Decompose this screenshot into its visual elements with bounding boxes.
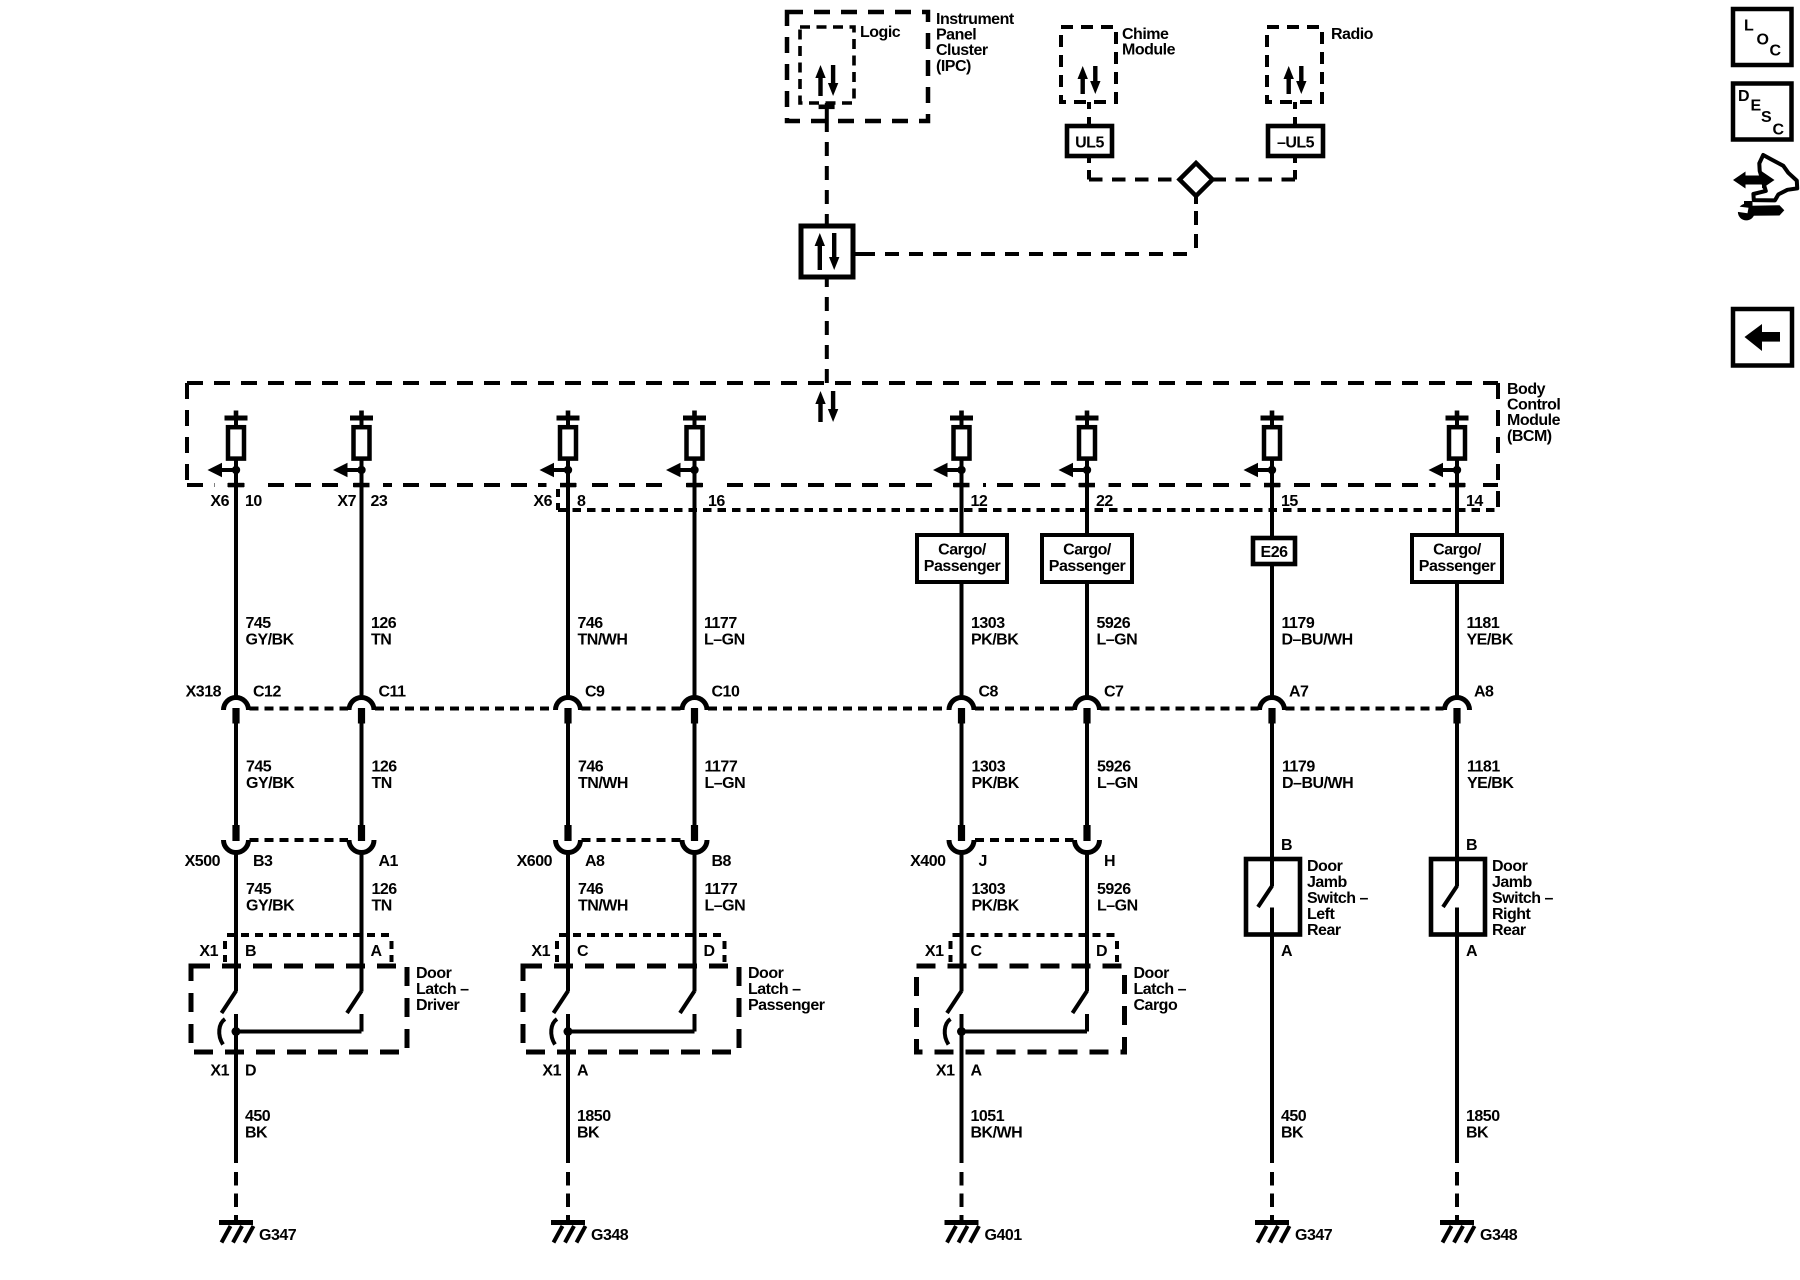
wire 1179 D-BU/WH X318 to door jamb switch [1270, 723, 1274, 887]
X600 in-line connector pin A8 [556, 825, 581, 852]
svg-text:Door: Door [1492, 858, 1528, 875]
circuit label 5926 upper [1097, 615, 1138, 648]
wire: data box bottom stub [825, 277, 829, 287]
svg-text:C9: C9 [585, 684, 605, 701]
svg-text:8: 8 [577, 493, 586, 510]
svg-text:B8: B8 [712, 853, 732, 870]
svg-text:G347: G347 [259, 1227, 297, 1244]
svg-text:Latch –: Latch – [748, 981, 801, 998]
Body Control Module (BCM) dashed box [187, 383, 1498, 510]
svg-text:1303: 1303 [972, 881, 1006, 898]
svg-text:G401: G401 [985, 1227, 1023, 1244]
svg-text:G348: G348 [1480, 1227, 1518, 1244]
Logic inner dashed box [800, 27, 854, 103]
wire: dashed drop to G348 [566, 1172, 570, 1221]
svg-text:GY/BK: GY/BK [246, 631, 295, 648]
svg-text:1179: 1179 [1282, 615, 1315, 632]
circuit label 746 lower [578, 881, 628, 914]
svg-text:X1: X1 [925, 943, 944, 960]
svg-text:X1: X1 [531, 943, 550, 960]
circuit label 1177 middle [705, 759, 746, 792]
wire 1303 PK/BK X318 to body connector [960, 723, 964, 825]
wires below X500 [236, 851, 362, 992]
X1 label at latch cargo [925, 943, 944, 960]
BCM pin 14 signal arrow (to logic) [1429, 463, 1462, 478]
wire: serial data horizontal dashed to data box [853, 252, 1196, 256]
X318 in-line connector pin A8 [1445, 698, 1470, 724]
circuit label 746 upper [578, 615, 628, 648]
BCM pin 12 signal arrow (to logic) [933, 463, 966, 478]
svg-text:Logic: Logic [860, 24, 901, 41]
IPC label text [936, 11, 1015, 75]
svg-text:X500: X500 [185, 853, 221, 870]
X1 label at latch passenger [531, 943, 550, 960]
svg-text:TN/WH: TN/WH [578, 897, 628, 914]
svg-text:126: 126 [372, 759, 398, 776]
Door Latch - Driver dashed box [191, 966, 407, 1052]
wire 126 TN from BCM pin 23 [360, 485, 364, 696]
circuit label 126 lower [372, 881, 398, 914]
svg-text:C8: C8 [979, 684, 999, 701]
pin label 16 [708, 493, 725, 510]
wires below X600 [568, 851, 695, 992]
svg-text:1850: 1850 [577, 1108, 611, 1125]
svg-text:A: A [971, 1063, 983, 1080]
door jamb switch pin A label (left rear) [1281, 943, 1293, 960]
X1 output label at latch passenger [542, 1063, 589, 1080]
svg-text:450: 450 [245, 1108, 271, 1125]
door latch cargo junction dot [957, 1027, 966, 1036]
X1 pin D label [704, 943, 715, 960]
wire 1177 L-GN X318 to body connector [693, 723, 697, 825]
svg-text:746: 746 [578, 615, 604, 632]
X318 in-line connector pin C8 [949, 698, 974, 724]
BCM pin 22 signal arrow (to logic) [1059, 463, 1092, 478]
door latch cargo left switch blade [947, 991, 962, 1013]
svg-text:GY/BK: GY/BK [246, 775, 295, 792]
svg-text:Right: Right [1492, 906, 1532, 923]
wire 1181 YE/BK from BCM pin 14 through option box [1455, 485, 1459, 696]
wire: -UL5 down and left to diamond (dashed) [1213, 156, 1295, 180]
svg-text:745: 745 [246, 881, 272, 898]
svg-text:Door: Door [1134, 965, 1170, 982]
pin label 14 [1466, 493, 1483, 510]
svg-text:A: A [371, 943, 383, 960]
svg-text:X1: X1 [542, 1063, 561, 1080]
svg-text:YE/BK: YE/BK [1467, 631, 1514, 648]
circuit label 1181 middle [1467, 759, 1514, 792]
Door Jamb Switch - Left Rear label [1307, 858, 1369, 939]
BCM driver output pin 10: pullup resistor [225, 411, 248, 486]
svg-text:C7: C7 [1104, 684, 1124, 701]
svg-text:B: B [245, 943, 256, 960]
Door Latch - Cargo dashed box [917, 966, 1125, 1052]
svg-text:Rear: Rear [1492, 922, 1526, 939]
door latch passenger switch travel hook [551, 1019, 557, 1045]
wire 746 TN/WH from BCM pin 8 [566, 485, 570, 696]
BCM box edge tick at pin 12 [940, 482, 983, 488]
BCM pin 8 signal arrow (to logic) [540, 463, 573, 478]
wire: dashed drop to G401 [960, 1172, 964, 1221]
door latch cargo common tie wire [962, 1014, 1088, 1032]
pin label 12 [971, 493, 988, 510]
wire: dashed IPC down to data box [825, 142, 829, 218]
X318 pin label C8 [979, 684, 999, 701]
svg-text:Cargo/: Cargo/ [1063, 542, 1112, 559]
svg-text:D–BU/WH: D–BU/WH [1282, 631, 1353, 648]
svg-text:Cargo/: Cargo/ [938, 542, 987, 559]
svg-text:X6: X6 [210, 493, 229, 510]
door latch driver left switch blade [222, 991, 237, 1013]
door latch driver junction dot [232, 1027, 241, 1036]
ground label G348 [591, 1227, 629, 1244]
svg-text:L–GN: L–GN [1097, 897, 1138, 914]
LOC navigation box [1733, 9, 1792, 65]
svg-text:746: 746 [578, 759, 604, 776]
svg-text:Chime: Chime [1122, 26, 1169, 43]
svg-text:1850: 1850 [1466, 1108, 1500, 1125]
door latch passenger right switch blade [680, 991, 695, 1013]
svg-text:1177: 1177 [705, 759, 738, 776]
X1 pin C label [971, 943, 983, 960]
svg-text:1051: 1051 [971, 1108, 1005, 1125]
svg-text:A1: A1 [379, 853, 399, 870]
Chime Module label [1122, 26, 1176, 59]
svg-text:L–GN: L–GN [705, 897, 746, 914]
ground label G348 [1480, 1227, 1518, 1244]
connector X500 label [185, 853, 221, 870]
svg-text:12: 12 [971, 493, 988, 510]
svg-text:1177: 1177 [704, 615, 737, 632]
svg-text:A7: A7 [1289, 684, 1309, 701]
Door Latch - Cargo label [1134, 965, 1187, 1014]
X400 in-line connector pin J [949, 825, 974, 852]
svg-text:–UL5: –UL5 [1277, 135, 1315, 152]
wire 1179 D-BU/WH from BCM pin 15 through E26 box [1270, 485, 1274, 696]
svg-text:D: D [245, 1063, 256, 1080]
svg-text:H: H [1104, 853, 1115, 870]
X1 pin D label [1096, 943, 1107, 960]
BCM pin 16 signal arrow (to logic) [666, 463, 699, 478]
svg-text:746: 746 [578, 881, 604, 898]
BCM box edge tick at pin 14 [1436, 482, 1479, 488]
Radio label [1331, 26, 1374, 43]
svg-text:BK: BK [245, 1124, 268, 1141]
X318 pin label C11 [379, 684, 407, 701]
X318 in-line connector pin C12 [224, 698, 249, 724]
X600 pin label A8 [585, 853, 605, 870]
svg-text:1177: 1177 [705, 881, 738, 898]
svg-text:Instrument: Instrument [936, 11, 1015, 28]
-UL5 RPO box [1268, 126, 1323, 156]
ground circuit label 450 BK [245, 1108, 271, 1141]
X318 pin label C7 [1104, 684, 1124, 701]
circuit label 126 upper [371, 615, 397, 648]
wire: dashed drop to G347 [234, 1172, 238, 1221]
circuit label 1181 upper [1467, 615, 1514, 648]
svg-text:TN: TN [372, 897, 392, 914]
wire: dashed drop to G347 [1270, 1172, 1274, 1221]
circuit label 1179 middle [1282, 759, 1353, 792]
Door Latch - Driver label [416, 965, 469, 1014]
svg-text:X1: X1 [936, 1063, 955, 1080]
X400 pin label J [979, 853, 987, 870]
door jamb switch blade (left rear) [1258, 886, 1272, 907]
svg-text:BK: BK [577, 1124, 600, 1141]
svg-text:X1: X1 [199, 943, 218, 960]
svg-text:C: C [971, 943, 983, 960]
svg-text:BK: BK [1466, 1124, 1489, 1141]
X500 in-line connector pin B3 [224, 825, 249, 852]
circuit label 1303 middle [972, 759, 1020, 792]
svg-text:TN/WH: TN/WH [578, 775, 628, 792]
svg-text:X400: X400 [910, 853, 946, 870]
ground circuit label 1850 BK [1466, 1108, 1500, 1141]
svg-text:X600: X600 [517, 853, 553, 870]
svg-text:C: C [577, 943, 589, 960]
Door Jamb Switch - Right Rear label [1492, 858, 1554, 939]
Cargo/Passenger option box [1042, 535, 1132, 582]
svg-text:Body: Body [1507, 381, 1546, 398]
wire: IPC logic to below (solid) [825, 103, 829, 132]
svg-text:Latch –: Latch – [416, 981, 469, 998]
svg-text:BK: BK [1281, 1124, 1304, 1141]
svg-text:C: C [1770, 43, 1782, 60]
BCM driver output pin 8: pullup resistor [557, 411, 580, 486]
X1 connector dotted box at door latch passenger [557, 935, 725, 962]
circuit label 1177 lower [705, 881, 746, 914]
svg-text:J: J [979, 853, 987, 870]
svg-text:A8: A8 [585, 853, 605, 870]
X318 in-line connector pin A7 [1260, 698, 1285, 724]
wire: door latch driver output to ground run [234, 1014, 238, 1163]
door jamb switch pin B label (left rear) [1281, 837, 1292, 854]
door latch cargo switch travel hook [945, 1019, 951, 1045]
svg-text:Jamb: Jamb [1492, 874, 1533, 891]
Door Jamb Switch - Left Rear box [1246, 859, 1300, 935]
wire: UL5 down and right to diamond (dashed) [1089, 156, 1179, 180]
pin label X7 / 23 [337, 493, 387, 510]
X400 in-line connector pin H [1075, 825, 1100, 852]
svg-text:A: A [1281, 943, 1293, 960]
wire 1177 L-GN from BCM pin 16 [693, 485, 697, 696]
BCM driver output pin 16: pullup resistor [683, 411, 706, 486]
svg-text:B: B [1281, 837, 1292, 854]
ground symbol G401 [945, 1220, 980, 1243]
pin label X6 / 10 [210, 493, 262, 510]
svg-text:PK/BK: PK/BK [972, 897, 1020, 914]
X318 in-line connector pin C10 [682, 698, 707, 724]
svg-text:5926: 5926 [1097, 615, 1131, 632]
connector X318 label [186, 684, 222, 701]
wire 746 TN/WH X318 to body connector [566, 723, 570, 825]
pin label 22 [1096, 493, 1113, 510]
svg-text:D: D [1738, 88, 1749, 105]
svg-text:Passenger: Passenger [924, 558, 1001, 575]
X318 in-line connector pin C7 [1075, 698, 1100, 724]
svg-text:Passenger: Passenger [1049, 558, 1126, 575]
svg-text:Module: Module [1507, 412, 1561, 429]
X400 dotted connector line [975, 838, 1074, 842]
BCM driver output pin 23: pullup resistor [350, 411, 373, 486]
pin label 15 [1281, 493, 1298, 510]
svg-text:L–GN: L–GN [1097, 775, 1138, 792]
svg-text:B3: B3 [253, 853, 273, 870]
X1 pin A label [371, 943, 383, 960]
circuit label 745 middle [246, 759, 295, 792]
ground circuit label 1051 BK/WH [971, 1108, 1023, 1141]
door latch driver common tie wire [236, 1014, 362, 1032]
circuit label 1303 upper [971, 615, 1019, 648]
X600 pin label B8 [712, 853, 732, 870]
svg-text:C12: C12 [253, 684, 281, 701]
svg-text:10: 10 [245, 493, 262, 510]
Door Jamb Switch - Right Rear box [1431, 859, 1485, 935]
svg-text:BK/WH: BK/WH [971, 1124, 1023, 1141]
svg-text:1303: 1303 [972, 759, 1006, 776]
wire: diamond down to serial data line [1194, 197, 1198, 254]
BCM box edge tick at pin 8 [547, 482, 590, 488]
svg-text:Switch –: Switch – [1492, 890, 1554, 907]
svg-text:C10: C10 [712, 684, 740, 701]
IPC logic bidirectional arrows [815, 65, 838, 96]
wire: door jamb switch left to ground run [1270, 908, 1274, 1164]
door latch passenger junction dot [564, 1027, 573, 1036]
X600 in-line connector pin B8 [682, 825, 707, 852]
X500 dotted connector line [250, 838, 349, 842]
circuit label 1179 upper [1282, 615, 1353, 648]
BCM box edge tick at pin 10 [215, 482, 258, 488]
svg-text:D–BU/WH: D–BU/WH [1282, 775, 1353, 792]
svg-text:(IPC): (IPC) [936, 58, 971, 75]
X318 pin label C12 [253, 684, 281, 701]
X500 pin label B3 [253, 853, 273, 870]
circuit label 126 middle [372, 759, 398, 792]
svg-text:X1: X1 [210, 1063, 229, 1080]
svg-text:C: C [1773, 122, 1785, 139]
X1 connector dotted box at door latch driver [225, 935, 392, 962]
svg-text:126: 126 [372, 881, 398, 898]
svg-text:TN: TN [372, 775, 392, 792]
svg-text:L–GN: L–GN [705, 775, 746, 792]
diagnostic reference icon: outline arrow [1753, 155, 1797, 200]
svg-text:Radio: Radio [1331, 26, 1374, 43]
circuit label 746 middle [578, 759, 628, 792]
BCM driver output pin 15: pullup resistor [1261, 411, 1284, 486]
svg-text:5926: 5926 [1097, 759, 1131, 776]
svg-text:G347: G347 [1295, 1227, 1333, 1244]
ground symbol G347 [1255, 1220, 1290, 1243]
BCM box edge tick at pin 22 [1066, 482, 1109, 488]
BCM X6 connector dotted boundary [558, 489, 1498, 510]
X1 pin C label [577, 943, 589, 960]
Chime Module dashed box [1061, 27, 1116, 102]
circuit label 745 lower [246, 881, 295, 914]
wire: Chime to UL5 [1087, 102, 1091, 126]
circuit label 1177 upper [704, 615, 745, 648]
svg-text:Left: Left [1307, 906, 1336, 923]
door latch passenger common tie wire [568, 1014, 695, 1032]
X600 dotted connector line [582, 838, 682, 842]
svg-text:UL5: UL5 [1075, 135, 1104, 152]
Radio dashed box [1267, 27, 1322, 102]
UL5 RPO box [1067, 126, 1112, 156]
svg-text:15: 15 [1281, 493, 1298, 510]
X318 pin label A7 [1289, 684, 1309, 701]
Door Latch - Passenger label [748, 965, 825, 1014]
circuit label 5926 middle [1097, 759, 1138, 792]
ground symbol G348 [1440, 1220, 1475, 1243]
door latch driver right switch blade [347, 991, 362, 1013]
svg-text:22: 22 [1096, 493, 1113, 510]
svg-text:Control: Control [1507, 397, 1560, 414]
svg-text:Module: Module [1122, 42, 1176, 59]
X318 dotted connector line [250, 707, 1444, 711]
circuit label 1303 lower [972, 881, 1020, 914]
svg-text:A: A [1466, 943, 1478, 960]
diagnostic reference icon: double arrow [1733, 172, 1775, 189]
svg-text:L–GN: L–GN [704, 631, 745, 648]
BCM label [1507, 381, 1561, 445]
ground circuit label 1850 BK [577, 1108, 611, 1141]
X318 pin label C10 [712, 684, 740, 701]
svg-text:14: 14 [1466, 493, 1483, 510]
BCM driver output pin 22: pullup resistor [1076, 411, 1099, 486]
svg-text:X318: X318 [186, 684, 222, 701]
svg-text:745: 745 [246, 615, 272, 632]
svg-text:Cargo/: Cargo/ [1433, 542, 1482, 559]
svg-text:450: 450 [1281, 1108, 1307, 1125]
svg-text:1181: 1181 [1467, 759, 1500, 776]
door latch cargo right switch blade [1073, 991, 1088, 1013]
svg-text:S: S [1761, 109, 1772, 126]
svg-text:Switch –: Switch – [1307, 890, 1369, 907]
BCM box edge tick at pin 23 [340, 482, 383, 488]
svg-text:D: D [704, 943, 715, 960]
X318 in-line connector pin C9 [556, 698, 581, 724]
wire 745 GY/BK from BCM pin 10 [234, 485, 238, 696]
svg-text:E26: E26 [1261, 544, 1289, 561]
svg-text:5926: 5926 [1097, 881, 1131, 898]
svg-text:Jamb: Jamb [1307, 874, 1348, 891]
svg-text:1303: 1303 [971, 615, 1005, 632]
wire 5926 L-GN from BCM pin 22 through option box [1085, 485, 1089, 696]
ground circuit label 450 BK [1281, 1108, 1307, 1141]
svg-text:Passenger: Passenger [748, 997, 825, 1014]
wire: Radio to -UL5 [1293, 102, 1297, 126]
ground label G347 [259, 1227, 297, 1244]
svg-text:A8: A8 [1474, 684, 1494, 701]
wire 1181 YE/BK X318 to door jamb switch [1455, 723, 1459, 887]
E26 option box [1253, 538, 1295, 564]
wire: dashed drop to G348 [1455, 1172, 1459, 1221]
BCM driver output pin 14: pullup resistor [1446, 411, 1469, 486]
svg-text:YE/BK: YE/BK [1467, 775, 1514, 792]
svg-text:TN: TN [371, 631, 391, 648]
wire: dashed down to BCM [825, 297, 829, 383]
wire: door latch cargo output to ground run [960, 1014, 964, 1163]
door jamb switch pin B label (right rear) [1466, 837, 1477, 854]
X1 label at latch driver [199, 943, 218, 960]
svg-text:Door: Door [1307, 858, 1343, 875]
svg-text:Rear: Rear [1307, 922, 1341, 939]
X400 pin label H [1104, 853, 1115, 870]
DESC navigation box [1733, 84, 1792, 140]
BCM pin 23 signal arrow (to logic) [333, 463, 366, 478]
wire 745 GY/BK X318 to body connector [234, 723, 238, 825]
svg-text:1179: 1179 [1282, 759, 1315, 776]
back arrow box [1733, 309, 1792, 366]
